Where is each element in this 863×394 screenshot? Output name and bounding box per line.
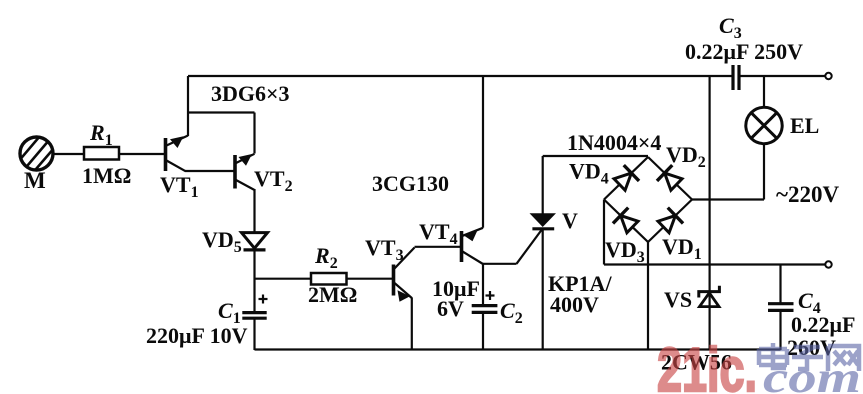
wire C1 bottom to ground rail (253, 318, 255, 350)
wire bridge edge bottom-right (648, 200, 692, 243)
svg-text:~220V: ~220V (776, 182, 839, 207)
svg-text:3CG130: 3CG130 (372, 171, 449, 196)
svg-text:V: V (562, 208, 578, 233)
capacitor C1 (242, 295, 267, 319)
zener diode VS (699, 286, 720, 307)
rectifier diode VD4 (612, 165, 639, 192)
svg-text:220μF 10V: 220μF 10V (146, 323, 248, 348)
rectifier diode VD3 (613, 208, 640, 235)
wire top rail right of C3 (740, 75, 826, 77)
wire thyristor cathode down to rail (542, 229, 544, 350)
svg-text:EL: EL (790, 113, 819, 138)
node top-right AC terminal (825, 73, 831, 79)
diode VD5 (242, 233, 268, 250)
svg-text:400V: 400V (550, 292, 599, 317)
wire VT4 collector up to top rail (482, 76, 484, 228)
svg-text:6V: 6V (437, 296, 464, 321)
wire vertical to VT2 collector (253, 113, 255, 154)
wire gate diagonal to thyristor (517, 230, 542, 264)
svg-text:1N4004×4: 1N4004×4 (567, 130, 661, 155)
wire thyristor anode up (542, 156, 544, 214)
svg-text:1MΩ: 1MΩ (82, 163, 131, 188)
wire lamp bottom vertical (763, 144, 765, 200)
wire lamp top to rail (763, 76, 765, 108)
capacitor C2 (472, 291, 498, 312)
svg-text:21ic.: 21ic. (657, 336, 757, 394)
wire VS branch vertical (708, 76, 710, 350)
svg-text:2MΩ: 2MΩ (308, 282, 357, 307)
resistor R1 (84, 147, 119, 160)
wire VT3 emitter down to bottom rail (411, 298, 413, 351)
wire bottom rail (255, 348, 781, 350)
svg-text:3DG6×3: 3DG6×3 (211, 81, 290, 106)
wire bridge edge top-right (648, 157, 692, 200)
wire VT2 emitter down to VD5 (253, 189, 255, 233)
svg-text:0.22μF: 0.22μF (791, 312, 855, 337)
rectifier diode VD1 (656, 208, 683, 235)
wire horizontal VT1/VT2 collector tie (188, 111, 255, 113)
wire C2 bottom to rail (482, 313, 484, 351)
watermark dianzi blue CJK (759, 343, 859, 371)
svg-text:VS: VS (664, 287, 692, 312)
electrode M (18, 136, 56, 176)
resistor R2 (311, 273, 347, 285)
wire bridge edge bottom-left (604, 200, 648, 243)
wire bridge bottom corner down to rail (647, 242, 649, 350)
svg-text:0.22μF 250V: 0.22μF 250V (685, 39, 803, 64)
wire vertical from top rail to VT1 collector (187, 76, 189, 136)
thyristor V (530, 213, 557, 229)
wire junction to R2 (255, 278, 312, 280)
wire bridge left corner down (603, 200, 605, 265)
node bottom-right AC terminal (825, 261, 831, 267)
wire VT4 emitter horizontal to gate (483, 263, 517, 265)
watermark 21ic red (657, 336, 757, 394)
transistor VT1 (166, 136, 189, 172)
wire VT1 emitter to VT2 base (185, 170, 234, 172)
svg-text:com: com (763, 353, 861, 394)
rectifier diode VD2 (657, 165, 684, 192)
wire bridge edge top-left (604, 157, 648, 200)
lamp EL (746, 107, 782, 143)
wire VT3 collector to VT4 base (415, 246, 461, 248)
wire VT4 emitter junction to C2 (482, 264, 484, 305)
svg-text:M: M (24, 168, 46, 193)
wire bridge right corner to lamp bottom (692, 198, 764, 200)
wire VD5 to C1 junction (253, 250, 255, 312)
capacitor C4 (768, 304, 794, 311)
wire thyristor anode to bridge top corner (543, 155, 648, 157)
wire top rail left of C3 (188, 75, 732, 77)
transistor VT2 (235, 154, 255, 190)
capacitor C3 (733, 65, 739, 90)
wire C4 bottom to rail (779, 311, 781, 351)
wire C4 top vertical (779, 265, 781, 304)
transistor VT4 (462, 228, 484, 264)
wire AC line to bottom terminal (604, 263, 826, 265)
wire R2 to VT3 base (347, 278, 393, 280)
wire M to R1 (53, 153, 84, 155)
watermark .com blue (763, 353, 861, 394)
transistor VT3 (394, 248, 415, 302)
wire R1 to VT1 base (119, 153, 165, 155)
